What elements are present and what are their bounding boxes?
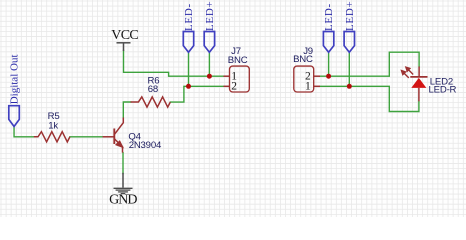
- svg-text:LED+: LED+: [344, 1, 356, 31]
- svg-text:VCC: VCC: [111, 28, 138, 43]
- svg-text:BNC: BNC: [228, 55, 248, 66]
- svg-text:Digital Out: Digital Out: [9, 54, 21, 104]
- svg-text:LED-R: LED-R: [429, 85, 457, 96]
- svg-text:1: 1: [305, 81, 311, 93]
- svg-text:2: 2: [231, 81, 237, 93]
- svg-text:LED-: LED-: [183, 3, 195, 31]
- svg-text:GND: GND: [109, 192, 137, 207]
- svg-text:LED-: LED-: [323, 3, 335, 31]
- svg-text:LED+: LED+: [204, 1, 216, 31]
- svg-text:1k: 1k: [48, 121, 58, 132]
- svg-text:BNC: BNC: [293, 54, 313, 65]
- svg-text:68: 68: [148, 84, 158, 95]
- svg-text:2N3904: 2N3904: [129, 140, 162, 151]
